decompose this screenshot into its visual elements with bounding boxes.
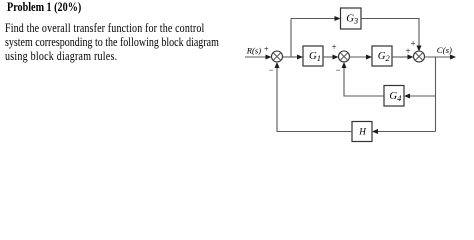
- svg-text:G4: G4: [389, 90, 402, 103]
- block G1: [303, 46, 323, 66]
- svg-text:R(s): R(s): [246, 45, 261, 55]
- svg-text:+: +: [332, 42, 337, 52]
- svg-text:−: −: [269, 65, 274, 75]
- svg-text:G2: G2: [378, 50, 391, 63]
- summing junction S2: [339, 51, 350, 62]
- summing junction S3: [414, 51, 425, 62]
- block H: [352, 122, 372, 142]
- block G4: [384, 86, 404, 107]
- wire input R(s) to summer S1: [245, 55, 272, 60]
- block G2: [372, 46, 392, 66]
- summing junction S1: [272, 51, 283, 62]
- paragraph text: [5, 21, 219, 64]
- svg-text:+: +: [264, 44, 269, 53]
- node R(s) input label: [246, 45, 261, 55]
- plus sign at S3 left input: [406, 46, 411, 56]
- wire G1 to summer S2: [323, 55, 339, 60]
- plus sign at S1 left input: [264, 44, 269, 53]
- wire A to G3: [291, 16, 341, 21]
- svg-text:+: +: [406, 46, 411, 56]
- heading text: [7, 0, 81, 15]
- minus sign at S2 bottom input: [336, 65, 341, 75]
- wire S3 to output C(s): [425, 55, 457, 60]
- node C(s) output label: [437, 45, 452, 55]
- node takeoff B on output: [435, 57, 437, 132]
- svg-text:C(s): C(s): [437, 45, 452, 55]
- wire S2 to G2: [350, 55, 373, 60]
- node takeoff A to G3: [290, 19, 292, 58]
- minus sign at S1 bottom input: [269, 65, 274, 75]
- svg-text:H: H: [358, 127, 367, 137]
- svg-text:G1: G1: [309, 50, 321, 63]
- wire S1 to G1: [283, 55, 304, 60]
- wire G4 to summer S2 bottom: [342, 62, 385, 96]
- wire G3 to summer S3 top: [361, 19, 422, 52]
- plus sign at S2 left input: [332, 42, 337, 52]
- svg-text:+: +: [411, 39, 416, 49]
- svg-text:G3: G3: [346, 12, 358, 25]
- wire B to H: [372, 129, 436, 134]
- wire H to summer S1 bottom: [275, 62, 353, 132]
- block G3: [341, 8, 362, 29]
- wire G2 to summer S3: [392, 55, 414, 60]
- plus sign at S3 top input: [411, 39, 416, 49]
- wire B to G4: [404, 94, 436, 99]
- svg-text:−: −: [336, 65, 341, 75]
